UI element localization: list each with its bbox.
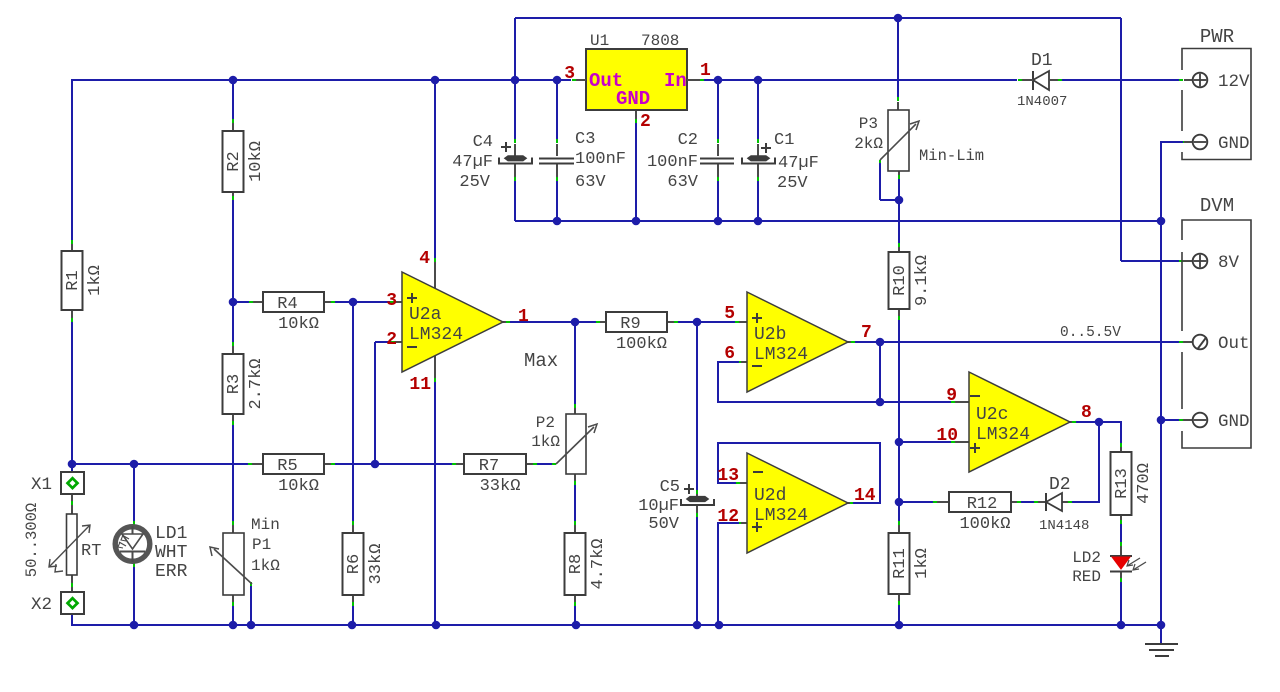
- svg-text:R10: R10: [891, 265, 910, 296]
- P2 labels: [531, 414, 560, 451]
- resistor R12 100k: [949, 492, 1011, 514]
- wire: C1 column: [757, 80, 759, 221]
- junction node: cap rail / DVM GND column: [1157, 217, 1166, 226]
- terminal X1: [61, 472, 84, 494]
- svg-text:50..300Ω: 50..300Ω: [23, 503, 41, 577]
- junction node: C5 / GND rail: [693, 621, 702, 630]
- junction node: pin12 column / GND rail: [715, 621, 724, 630]
- svg-text:63V: 63V: [575, 173, 606, 192]
- svg-text:RED: RED: [1072, 568, 1101, 586]
- wire: DVM GND terminal row: [1161, 419, 1193, 421]
- svg-text:R13: R13: [1113, 468, 1132, 499]
- svg-text:LM324: LM324: [409, 325, 463, 345]
- svg-text:GND: GND: [1218, 412, 1250, 432]
- junction node: cap rail / C1: [754, 217, 763, 226]
- svg-text:U2a: U2a: [409, 305, 442, 325]
- svg-text:2kΩ: 2kΩ: [854, 135, 883, 153]
- U2b minus input mark: [752, 365, 762, 367]
- junction node: rail / C1 column: [754, 76, 763, 85]
- svg-text:4: 4: [419, 249, 430, 269]
- wire: U2a pin 2 feedback down to R5 row: [375, 342, 402, 464]
- resistor R3 2.7k: [223, 354, 245, 414]
- svg-text:Out: Out: [1218, 334, 1250, 354]
- wire: DVM 8V feed (top rail down and into 8V terminal): [1121, 18, 1193, 261]
- svg-text:1kΩ: 1kΩ: [913, 548, 932, 579]
- wire: X1 to RT link: [71, 490, 73, 514]
- resistor R2 10k: [223, 131, 245, 192]
- wire: R10/R11 column (P3 wiper node through to R11): [898, 179, 900, 533]
- junction node: rail / C4 column: [511, 76, 520, 85]
- terminal X2: [61, 592, 84, 614]
- svg-text:C1: C1: [774, 131, 794, 150]
- wire: rail y=80 between U1 pin1 and D1: [704, 79, 1017, 81]
- wire: rail y=80 from D1 to PWR 12V terminal: [1062, 79, 1193, 81]
- wire: R7 to P2 wiper: [526, 463, 556, 465]
- wire: LD2 cathode to GND rail: [1120, 572, 1122, 625]
- wire: R9 to U2b pin 5: [667, 321, 747, 323]
- junction node: rail/left column corner: [71, 79, 73, 81]
- svg-text:Min-Lim: Min-Lim: [919, 147, 984, 165]
- wire: 8V top rail from C4 column to DVM feed corner: [515, 17, 1121, 19]
- svg-text:R4: R4: [277, 295, 297, 314]
- wire: RT to X2 link: [71, 575, 73, 598]
- svg-text:12V: 12V: [1218, 72, 1250, 92]
- voltage regulator U1 7808: [572, 32, 704, 110]
- LD2 labels: [1072, 549, 1101, 586]
- svg-text:LM324: LM324: [976, 425, 1030, 445]
- junction node: R11 / GND rail: [895, 621, 904, 630]
- svg-text:2.7kΩ: 2.7kΩ: [247, 358, 266, 409]
- LED LD1 WHT ERR (panel indicator): [115, 526, 150, 562]
- op-amp U2d triangle: [747, 453, 848, 553]
- C4 value labels: [452, 153, 493, 192]
- wire: U2a output to R9 and junction: [503, 321, 606, 323]
- capacitor C5 10uF 50V (electrolytic): [681, 484, 714, 505]
- thermistor RT 50..300: [49, 514, 90, 575]
- wire: C2 column: [717, 80, 719, 221]
- svg-text:63V: 63V: [667, 173, 698, 192]
- svg-text:WHT: WHT: [155, 543, 188, 563]
- junction node: R12 row / R10-R11 column: [895, 498, 904, 507]
- junction node: P3 wiper / bottom lead: [895, 196, 904, 205]
- resistor R5 10k: [263, 454, 324, 476]
- wire: R6 bottom to GND rail: [352, 595, 354, 625]
- svg-text:1kΩ: 1kΩ: [531, 433, 560, 451]
- U2b plus input mark: [752, 317, 762, 319]
- svg-text:LM324: LM324: [754, 345, 808, 365]
- connector block DVM: [1182, 220, 1251, 448]
- svg-text:10kΩ: 10kΩ: [278, 315, 319, 334]
- wire: GND capacitor rail y=221: [515, 220, 1161, 222]
- potentiometer P2 1k (Max wiper): [556, 414, 597, 474]
- junction node A: R2/R3/R4 divider node: [229, 298, 238, 307]
- svg-text:R7: R7: [479, 457, 499, 476]
- svg-text:C4: C4: [473, 133, 493, 152]
- wire: P1 wiper to GND rail: [250, 582, 252, 625]
- svg-text:R11: R11: [891, 548, 910, 579]
- svg-text:P3: P3: [859, 115, 878, 133]
- svg-text:5: 5: [724, 304, 735, 324]
- LED LD2 RED: [1110, 556, 1146, 572]
- capacitor C3 100nF 63V: [539, 159, 574, 164]
- wire: U2c pin 10 row from R10/R11 node: [899, 441, 969, 443]
- diode D2 1N4148: [1046, 493, 1062, 511]
- wire: R13 bottom to LD2: [1120, 515, 1122, 556]
- junction node: R4 / R6 column: [349, 298, 358, 307]
- svg-text:100kΩ: 100kΩ: [959, 515, 1010, 534]
- U2a minus input mark: [407, 346, 417, 348]
- wire: U2a power pin 4 from rail: [434, 80, 436, 289]
- svg-text:In: In: [664, 70, 687, 92]
- wire: U2c output to R13: [1069, 422, 1121, 452]
- junction node: U2b feedback column / pin9 row: [876, 398, 885, 407]
- svg-text:R2: R2: [225, 151, 244, 171]
- svg-text:10µF: 10µF: [638, 497, 679, 516]
- op-amp U2b triangle: [747, 292, 848, 392]
- svg-text:6: 6: [724, 344, 735, 364]
- svg-text:0..5.5V: 0..5.5V: [1060, 325, 1121, 341]
- svg-text:100kΩ: 100kΩ: [616, 335, 667, 354]
- DVM GND terminal: [1193, 413, 1208, 428]
- svg-text:33kΩ: 33kΩ: [480, 477, 521, 496]
- wire: U2d unity feedback loop: [718, 443, 880, 503]
- connector block PWR: [1182, 49, 1251, 160]
- svg-text:2: 2: [386, 330, 397, 350]
- DVM 8V terminal: [1193, 254, 1208, 269]
- svg-text:7: 7: [861, 323, 872, 343]
- svg-text:8V: 8V: [1218, 253, 1240, 273]
- wire: U2d pin 12 to GND rail: [718, 523, 748, 625]
- svg-text:7808: 7808: [641, 32, 679, 50]
- svg-text:DVM: DVM: [1200, 195, 1234, 217]
- junction node: cap rail / C3: [553, 217, 562, 226]
- svg-text:1N4007: 1N4007: [1017, 94, 1067, 110]
- junction node: R6 / GND rail: [348, 621, 357, 630]
- svg-text:50V: 50V: [648, 515, 679, 534]
- wire: R6 column (pin3 node down to R6): [352, 302, 354, 533]
- wire: U2b output row to DVM Out terminal: [848, 341, 1193, 343]
- wire: P3 bottom lead: [898, 171, 900, 179]
- junction node: P1 wiper / GND rail: [247, 621, 256, 630]
- capacitor C4 47uF 25V (electrolytic): [499, 142, 532, 164]
- svg-text:25V: 25V: [459, 173, 490, 192]
- svg-text:R8: R8: [567, 554, 586, 574]
- wire: R12 row from R11/pin10 node: [899, 501, 949, 503]
- wire: main horizontal rail y=80 (regulator output, left section): [72, 79, 571, 81]
- junction node: rail / R2 column: [229, 76, 238, 85]
- svg-text:R3: R3: [225, 374, 244, 394]
- wire: R5 to pin2 node to R7: [324, 463, 464, 465]
- wire: D2 anode up to U2c output node: [1062, 422, 1099, 502]
- svg-text:D2: D2: [1049, 475, 1071, 495]
- svg-text:100nF: 100nF: [647, 153, 698, 172]
- svg-text:U2b: U2b: [754, 325, 786, 345]
- wire: P2 column (U2a out down to P2): [574, 322, 576, 414]
- wire: R11 bottom to GND rail: [898, 594, 900, 625]
- svg-text:X1: X1: [31, 475, 52, 495]
- resistor R8 4.7k: [565, 533, 587, 595]
- wire: R2 column (rail to R2, R2 to node A): [232, 80, 234, 302]
- junction node: U2a output / P2 column: [571, 318, 580, 327]
- junction node: X1 / R5 row: [68, 460, 77, 469]
- C1 value labels: [777, 154, 819, 193]
- C2 value labels: [647, 153, 699, 192]
- junction node: LD1 / R5 row: [130, 460, 139, 469]
- C5 value labels: [638, 497, 680, 534]
- svg-text:47µF: 47µF: [778, 154, 819, 173]
- svg-text:100nF: 100nF: [575, 150, 626, 169]
- svg-text:25V: 25V: [777, 174, 808, 193]
- wire: R12 to D2: [1011, 501, 1046, 503]
- svg-text:U1: U1: [590, 32, 609, 50]
- junction node: top rail / P3 feed: [894, 14, 903, 23]
- resistor R7 33k: [464, 454, 526, 476]
- svg-text:47µF: 47µF: [452, 153, 493, 172]
- LD1 labels: [155, 524, 188, 582]
- svg-text:4.7kΩ: 4.7kΩ: [589, 538, 608, 589]
- U2c minus input mark: [970, 395, 980, 397]
- U2d plus input mark: [752, 526, 762, 528]
- svg-text:13: 13: [717, 466, 739, 486]
- svg-text:14: 14: [854, 486, 876, 506]
- wire: C3 column: [556, 80, 558, 221]
- junction node: LD1 / GND rail: [130, 621, 139, 630]
- resistor R9 100k: [606, 312, 667, 334]
- resistor R6 33k: [343, 533, 365, 595]
- wire: P3 wiper connection: [880, 160, 899, 200]
- svg-text:8: 8: [1081, 403, 1092, 423]
- svg-text:P1: P1: [252, 536, 271, 554]
- junction node: rail / C2 column: [714, 76, 723, 85]
- junction node: cap rail / U1 GND pin: [632, 217, 641, 226]
- wire: U1 GND pin 2 down to cap rail: [635, 110, 637, 221]
- wire: U2b pin 6 feedback loop to pin 9 row: [718, 362, 969, 402]
- svg-text:D1: D1: [1031, 51, 1053, 71]
- op-amp U2a triangle: [402, 272, 503, 372]
- svg-text:PWR: PWR: [1200, 26, 1234, 48]
- junction node: cap rail / C2: [714, 217, 723, 226]
- junction node: LD2 / GND rail: [1117, 621, 1126, 630]
- svg-text:470Ω: 470Ω: [1135, 463, 1154, 504]
- wire: R3 column and down to P1: [232, 302, 234, 533]
- svg-text:U2c: U2c: [976, 405, 1008, 425]
- svg-text:R6: R6: [345, 554, 364, 574]
- svg-text:RT: RT: [81, 542, 101, 561]
- junction node: R8 / GND rail: [572, 621, 581, 630]
- svg-text:X2: X2: [31, 595, 52, 615]
- resistor R13 470: [1111, 452, 1133, 515]
- resistor R11 1k: [889, 533, 911, 594]
- svg-text:3: 3: [564, 64, 575, 84]
- svg-text:C3: C3: [575, 130, 595, 149]
- svg-text:C2: C2: [678, 131, 698, 150]
- wire: PWR GND terminal to DVM GND column: [1161, 142, 1193, 625]
- DVM Out terminal: [1193, 335, 1208, 350]
- U2c plus input mark: [970, 447, 980, 449]
- svg-text:GND: GND: [616, 88, 650, 110]
- svg-text:33kΩ: 33kΩ: [367, 544, 386, 585]
- wire: X2 down to bottom GND rail corner: [71, 607, 73, 626]
- wire: bottom GND rail y=625: [72, 624, 1161, 626]
- potentiometer P1 1k (Min): [210, 533, 252, 595]
- potentiometer P3 2k: [880, 110, 919, 171]
- svg-text:R9: R9: [620, 315, 640, 334]
- svg-text:10kΩ: 10kΩ: [278, 477, 319, 496]
- wire: C5 bottom to GND rail: [696, 505, 698, 625]
- svg-text:R1: R1: [64, 270, 83, 290]
- svg-text:11: 11: [409, 375, 431, 395]
- svg-text:1: 1: [518, 307, 529, 327]
- svg-text:1kΩ: 1kΩ: [86, 265, 105, 296]
- diode D1 1N4007: [1018, 71, 1062, 90]
- svg-text:P2: P2: [536, 414, 555, 432]
- junction node: GND rail / ground symbol: [1157, 621, 1166, 630]
- svg-text:U2d: U2d: [754, 486, 786, 506]
- svg-text:12: 12: [717, 507, 739, 527]
- resistor R4 10k: [263, 292, 324, 314]
- U2a plus input mark: [407, 297, 417, 299]
- junction node: DVM GND row / column: [1157, 416, 1166, 425]
- C3 value labels: [575, 150, 626, 192]
- svg-text:9.1kΩ: 9.1kΩ: [913, 255, 932, 306]
- svg-text:10kΩ: 10kΩ: [247, 141, 266, 182]
- svg-text:LD1: LD1: [155, 524, 187, 544]
- P1 labels Min P1 1k: [251, 516, 280, 575]
- junction node: U2b output: [876, 338, 885, 347]
- wire: R4 row y=302 (node A to U2a pin 3): [233, 301, 402, 303]
- junction node: R9 / C5 column: [693, 318, 702, 327]
- wire: R5 row y=464 (X1 node to R5): [72, 463, 263, 465]
- junction node: pin11 column / GND rail: [432, 621, 441, 630]
- wire: LD1 column: [133, 464, 135, 625]
- svg-text:Max: Max: [524, 350, 558, 372]
- capacitor C2 100nF 63V: [700, 159, 734, 164]
- svg-text:Min: Min: [251, 516, 280, 534]
- svg-text:LD2: LD2: [1072, 549, 1101, 567]
- junction node: P1 bottom / GND rail: [229, 621, 238, 630]
- wire: U2a power pin 11 to GND rail: [434, 355, 436, 625]
- wire: R8 bottom to GND rail: [574, 595, 576, 625]
- svg-text:R5: R5: [277, 457, 297, 476]
- wire: C5 column from R9/pin5 node: [696, 322, 698, 497]
- U2d minus input mark: [753, 471, 763, 473]
- svg-text:R12: R12: [967, 495, 998, 514]
- svg-text:3: 3: [386, 291, 397, 311]
- wire: P3 top feed from top rail: [897, 18, 899, 110]
- wire: P2 bottom to R8 top: [574, 474, 576, 533]
- svg-text:1: 1: [700, 61, 711, 81]
- wire: U2b output feedback drop: [879, 342, 881, 402]
- svg-text:C5: C5: [660, 478, 680, 497]
- PWR 12V terminal: [1193, 73, 1208, 88]
- svg-text:LM324: LM324: [754, 506, 808, 526]
- junction node: U2c output / D2 branch: [1095, 418, 1104, 427]
- PWR GND terminal: [1193, 135, 1208, 150]
- svg-text:9: 9: [946, 386, 957, 406]
- resistor R10 9.1k: [889, 252, 911, 309]
- svg-text:ERR: ERR: [155, 562, 188, 582]
- wire: P1 bottom lead to GND rail: [232, 595, 234, 625]
- junction node: rail / U2a pin4 column: [431, 76, 440, 85]
- op-amp U2c triangle: [969, 372, 1070, 472]
- wire: C4 column vertical (8V node down to GND rail corner): [514, 18, 516, 221]
- junction node: pin10 / R10-R11 column: [895, 438, 904, 447]
- ground symbol: [1145, 625, 1178, 656]
- resistor R1 1k: [62, 251, 84, 310]
- svg-text:2: 2: [640, 112, 651, 132]
- wire: left column x=72 R1 to X1 node: [71, 310, 73, 479]
- junction node: rail / C3 column: [553, 76, 562, 85]
- capacitor C1 47uF 25V (electrolytic): [742, 143, 775, 164]
- junction node: pin2 column / R5 row: [371, 460, 380, 469]
- svg-text:GND: GND: [1218, 134, 1250, 154]
- svg-text:10: 10: [936, 426, 958, 446]
- wire: left column x=72 top section (rail to R1): [71, 80, 73, 251]
- svg-text:1N4148: 1N4148: [1039, 518, 1089, 534]
- svg-text:1kΩ: 1kΩ: [251, 557, 280, 575]
